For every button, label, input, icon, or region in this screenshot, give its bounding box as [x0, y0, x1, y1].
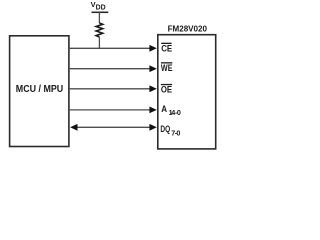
wire WE net [69, 68, 151, 70]
arrowhead into WE pin [149, 65, 156, 72]
wire data bus DQ net (bidirectional) [77, 126, 151, 128]
wire CE net [69, 47, 151, 49]
pin CE label with overline [161, 43, 171, 44]
svg-text:A: A [161, 104, 167, 114]
arrowhead into OE pin [149, 85, 156, 92]
arrowhead into DQ pin [149, 124, 156, 131]
resistor R1 (pull-up) [96, 23, 103, 37]
MCU / MPU block U1 [10, 36, 69, 147]
wire VDD to resistor [98, 13, 100, 24]
svg-text:WE: WE [161, 63, 173, 73]
wire OE net [69, 88, 151, 90]
pin WE label with overline [161, 62, 172, 63]
arrowhead into CE pin [149, 45, 156, 52]
svg-text:7-0: 7-0 [171, 128, 180, 137]
FRAM chip U2 FM28V020 [158, 35, 216, 149]
pin OE label with overline [161, 84, 172, 85]
svg-text:FM28V020: FM28V020 [168, 23, 208, 33]
svg-text:DQ: DQ [160, 124, 170, 134]
svg-text:OE: OE [161, 84, 172, 94]
svg-text:DD: DD [96, 5, 106, 12]
wire address bus A net [69, 109, 151, 111]
svg-text:CE: CE [161, 44, 172, 54]
svg-text:MCU / MPU: MCU / MPU [16, 84, 63, 95]
wire resistor to CE net [98, 37, 100, 48]
arrowhead into A pin [149, 107, 156, 114]
svg-text:14-0: 14-0 [169, 108, 181, 117]
arrowhead into MCU (DQ return) [70, 124, 77, 131]
